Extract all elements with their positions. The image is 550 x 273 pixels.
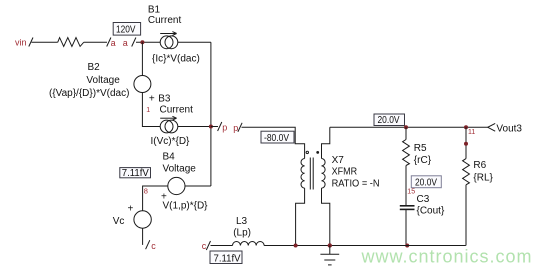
pin p/ (right block): [233, 123, 242, 133]
pin /p (left block): [218, 122, 228, 132]
svg-text:8: 8: [144, 187, 148, 196]
svg-text:120V: 120V: [116, 24, 136, 36]
pin a/ (right block): [123, 38, 136, 48]
svg-text:vin: vin: [15, 37, 27, 47]
port vin: [15, 37, 33, 47]
wire B1 to right bus: [178, 41, 211, 43]
wire Vout junction down: [465, 127, 467, 158]
node junction C3 bottom: [405, 244, 409, 248]
svg-text:11: 11: [468, 129, 475, 136]
svg-text:XFMR: XFMR: [332, 167, 358, 178]
svg-text:V(1,p)*{D}: V(1,p)*{D}: [163, 201, 209, 212]
wire B4 right to bus: [185, 185, 211, 187]
svg-text:L3: L3: [236, 216, 248, 227]
svg-text:-80.0V: -80.0V: [264, 132, 289, 144]
wire B4 left corner: [143, 186, 168, 211]
bias label 120V: [113, 23, 140, 36]
transformer labels: [332, 155, 380, 190]
svg-text:R5: R5: [414, 143, 427, 154]
svg-text:Vc: Vc: [113, 216, 125, 227]
svg-text:B2: B2: [88, 62, 101, 73]
svg-text:R6: R6: [473, 160, 486, 171]
svg-text:7.11fV: 7.11fV: [122, 168, 149, 179]
B3 current source: [151, 94, 194, 148]
svg-text:{Cout}: {Cout}: [417, 205, 445, 216]
svg-text:a: a: [111, 38, 116, 48]
node junction primary bottom: [294, 244, 298, 248]
wire vin to input resistor: [32, 41, 58, 43]
bias label 7.11fV (node 8): [120, 168, 151, 180]
svg-text:1: 1: [146, 107, 150, 114]
wire p to primary winding: [242, 127, 305, 158]
svg-text:15: 15: [407, 189, 415, 196]
svg-text:Voltage: Voltage: [86, 75, 120, 86]
resistor (input series): [58, 38, 84, 47]
resistor R5: [403, 127, 432, 206]
pin /c (left block): [146, 240, 157, 251]
svg-text:p: p: [222, 122, 227, 132]
wire pin a to B1: [136, 41, 160, 43]
node a junction: [140, 40, 144, 44]
svg-text:+: +: [128, 204, 134, 215]
wire node p to pin: [211, 126, 218, 128]
source Vc: [113, 204, 152, 229]
wire node a down to B2: [141, 42, 143, 75]
capacitor C3: [400, 194, 445, 245]
B1 current source: [148, 4, 200, 64]
svg-text:C3: C3: [417, 194, 430, 205]
bias label 20.0V (node 15): [411, 176, 441, 189]
svg-text:Current: Current: [160, 105, 194, 116]
transformer core: [310, 158, 313, 190]
svg-text:B3: B3: [158, 94, 171, 105]
svg-text:Current: Current: [148, 15, 182, 26]
node junction R6 branch: [464, 142, 468, 146]
svg-text:({Vap}/{D})*V(dac): ({Vap}/{D})*V(dac): [49, 88, 129, 99]
inductor L3: [233, 216, 265, 246]
svg-text:Voltage: Voltage: [163, 163, 197, 174]
svg-text:(Lp): (Lp): [233, 228, 251, 239]
bias label 20.0V (output): [374, 114, 405, 126]
svg-text:B4: B4: [163, 151, 176, 162]
wire Vc to pin c: [142, 228, 144, 245]
wire c to L3: [211, 245, 233, 247]
svg-text:I(Vc)*{D}: I(Vc)*{D}: [151, 136, 191, 147]
svg-text:{rC}: {rC}: [414, 155, 432, 166]
svg-text:{Ic}*V(dac): {Ic}*V(dac): [152, 54, 200, 65]
svg-text:a: a: [123, 38, 128, 48]
svg-text:p: p: [233, 123, 238, 133]
svg-text:RATIO = -N: RATIO = -N: [332, 179, 380, 190]
svg-text:B1: B1: [148, 4, 161, 15]
svg-text:c: c: [151, 241, 156, 251]
wire right bus vertical: [210, 42, 212, 186]
svg-text:Vout3: Vout3: [496, 123, 522, 134]
pin /a (left block): [107, 38, 116, 48]
pin c/ (right block): [202, 241, 211, 251]
svg-text:+: +: [149, 94, 155, 105]
transformer phase dot secondary: [316, 151, 319, 154]
transformer X7 secondary winding: [322, 127, 330, 245]
resistor R6: [463, 159, 494, 246]
svg-text:20.0V: 20.0V: [378, 114, 400, 126]
svg-text:{RL}: {RL}: [473, 172, 493, 183]
B4 voltage source: [161, 151, 208, 211]
svg-text:20.0V: 20.0V: [415, 176, 437, 188]
transformer phase dot primary: [306, 151, 308, 153]
ground: [320, 246, 339, 265]
node junction R5 top: [404, 125, 408, 129]
B2 voltage source: [49, 62, 155, 105]
node junction secondary bottom: [328, 243, 332, 247]
port Vout3: [488, 123, 523, 134]
wire resistor to pin a: [84, 41, 107, 43]
wire B2 to B3: [142, 93, 160, 127]
wire B3 to node p: [178, 126, 211, 128]
transformer X7 primary winding: [296, 159, 305, 246]
bias label -80.0V: [261, 131, 294, 144]
svg-text:www.cntronics.com: www.cntronics.com: [361, 247, 533, 267]
bottom ground rail: [264, 245, 466, 247]
svg-text:7.11fV: 7.11fV: [214, 252, 241, 264]
output wire to Vout3: [330, 126, 488, 128]
bias label 7.11fV (node c): [210, 251, 242, 264]
node p junction: [209, 125, 213, 129]
node junction Vout: [464, 125, 468, 129]
svg-text:X7: X7: [332, 155, 345, 166]
